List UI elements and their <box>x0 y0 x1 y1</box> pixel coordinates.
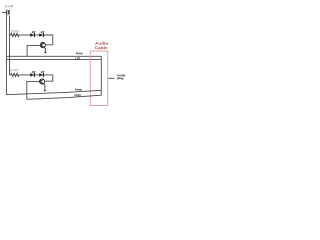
resistor R2 (220 ohm, bottom) <box>10 73 20 76</box>
label: Power (bottom) <box>75 88 82 90</box>
wire: bottom Power wire (slanted) <box>6 90 101 94</box>
LED D1 (top) <box>30 31 35 37</box>
label: Left (top) <box>75 57 80 59</box>
wire: right battery rail <box>9 15 11 75</box>
LED D4 (bottom) <box>39 71 44 77</box>
LED D2 (top) <box>39 31 44 37</box>
wire: top Power wire <box>6 55 101 57</box>
battery B1 <box>2 10 9 16</box>
wire: bottom Right wire (slanted) <box>27 95 102 99</box>
LED D3 (bottom) <box>30 71 35 77</box>
wire: LED3 to LED4 (bottom) <box>35 74 40 76</box>
label: Audio plug (black, right) <box>117 74 125 80</box>
resistor R1 (220 ohm, top) <box>10 33 20 36</box>
audio cable (red box) <box>90 51 108 106</box>
wire: emitter lead of Q2 with arrowhead <box>44 84 47 92</box>
wire: resistor to LED1 (top) <box>20 34 30 36</box>
wire: base lead of Q2 down to Right wire <box>27 81 39 99</box>
label: 9-volt battery text <box>5 5 13 7</box>
transistor Q2 (bottom) <box>40 79 45 84</box>
wire: LED2 to collector loop (top) <box>44 35 53 45</box>
label: Right (bottom) <box>75 94 81 97</box>
wire: left battery rail <box>5 15 7 94</box>
wire: emitter lead of Q1 with arrowhead <box>44 47 47 53</box>
wire: resistor to LED3 (bottom) <box>20 74 30 76</box>
wire: audio cable conductor (vertical) <box>100 56 102 95</box>
wire: LED4 to collector loop (bottom) <box>44 75 53 81</box>
wire: LED1 to LED2 (top) <box>35 34 40 36</box>
label: 220 ohm (top resistor) <box>11 30 19 32</box>
label: Audio Cable (red) <box>95 42 108 49</box>
label: Power (top) <box>76 52 83 54</box>
wire: tick from red box to Audio plug label <box>108 77 114 79</box>
transistor Q1 (top) <box>40 43 45 48</box>
wire: top Left wire <box>6 58 101 60</box>
wire: base lead of Q1 to Power wire <box>27 45 40 56</box>
label: 220 ohm (bottom resistor) <box>10 69 18 71</box>
